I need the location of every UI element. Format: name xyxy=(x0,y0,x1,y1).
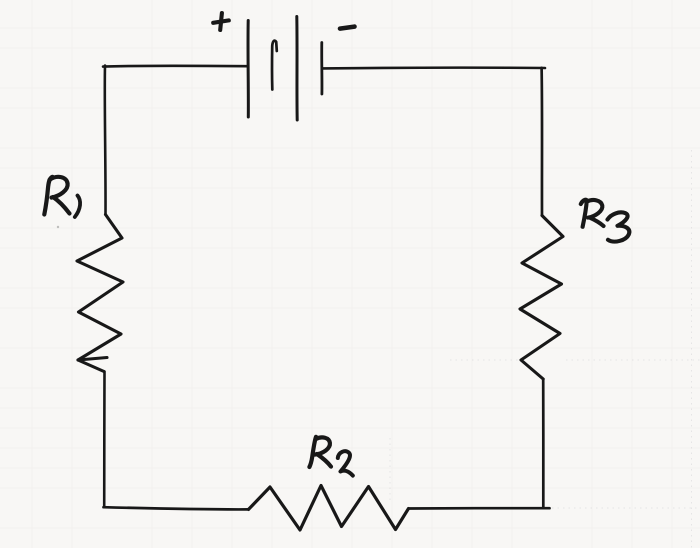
label R2 xyxy=(309,437,352,476)
battery plate long (inner right) xyxy=(295,17,298,121)
battery B1 xyxy=(248,17,322,121)
stray pencil dot xyxy=(57,226,59,228)
label R1 xyxy=(44,177,80,217)
polarity plus sign xyxy=(213,13,229,30)
battery plate short (negative, right) xyxy=(320,43,323,95)
wire bottom-right segment xyxy=(409,507,550,510)
resistor R1 xyxy=(77,215,123,372)
battery plate short with hook xyxy=(272,41,277,90)
label R3 xyxy=(581,200,630,242)
wire right vertical upper xyxy=(540,68,543,216)
battery plate long (positive, left) xyxy=(247,21,250,118)
resistor R3 xyxy=(520,216,563,380)
wire bottom-left segment xyxy=(104,507,249,509)
polarity minus sign xyxy=(340,27,355,29)
wire left vertical upper xyxy=(103,66,106,215)
wire top-left segment xyxy=(103,65,248,68)
wire left vertical lower xyxy=(103,372,106,508)
wire top-right segment xyxy=(323,66,546,69)
resistor R2 xyxy=(249,486,409,531)
wire right vertical lower xyxy=(542,379,545,508)
